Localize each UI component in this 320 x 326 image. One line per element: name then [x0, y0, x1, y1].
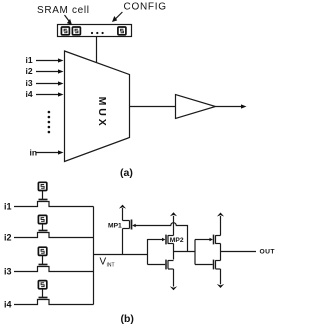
svg-text:i3: i3: [4, 267, 12, 277]
svg-text:OUT: OUT: [260, 248, 276, 255]
svg-text:i2: i2: [26, 66, 33, 76]
svg-text:MUX: MUX: [96, 97, 108, 129]
svg-text:CONFIG: CONFIG: [124, 2, 167, 13]
svg-text:i4: i4: [4, 300, 12, 310]
svg-text:i2: i2: [4, 233, 12, 243]
svg-text:in: in: [30, 147, 38, 157]
svg-text:INT: INT: [107, 263, 115, 269]
svg-text:MP1: MP1: [108, 223, 122, 230]
svg-text:MP2: MP2: [170, 237, 184, 244]
svg-text:i3: i3: [26, 78, 33, 88]
svg-text:i4: i4: [26, 89, 33, 99]
svg-text:V: V: [100, 257, 107, 268]
svg-text:(b): (b): [121, 313, 134, 325]
svg-text:(a): (a): [120, 167, 133, 179]
svg-text:SRAM cell: SRAM cell: [37, 5, 89, 16]
svg-text:i1: i1: [4, 202, 12, 212]
svg-text:i1: i1: [26, 55, 33, 65]
